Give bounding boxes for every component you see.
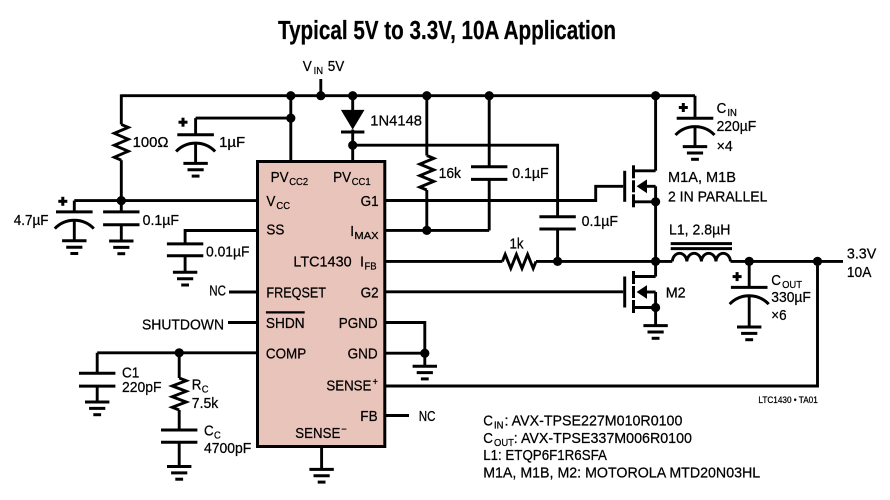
svg-text:CC2: CC2 xyxy=(289,176,308,188)
wire CIN stub xyxy=(694,96,697,119)
node top-rail junction diode xyxy=(348,91,357,100)
wire FB stub xyxy=(385,414,409,417)
capacitor 1uF xyxy=(177,133,214,136)
svg-text:LTC1430 • TA01: LTC1430 • TA01 xyxy=(758,395,817,406)
svg-text:Typical 5V to 3.3V, 10A Applic: Typical 5V to 3.3V, 10A Application xyxy=(278,17,616,45)
inductor L1 coil xyxy=(672,253,730,261)
node M2 source junction xyxy=(651,303,660,312)
capacitor 0.1uF mid xyxy=(539,215,575,218)
svg-text:MAX: MAX xyxy=(354,230,378,242)
svg-text:C: C xyxy=(717,100,727,117)
wire PVCC2 branch xyxy=(289,96,292,162)
op-amp U1 LTC1430 body xyxy=(258,162,385,447)
node COUT junction xyxy=(745,257,754,266)
wire 16k bottom xyxy=(425,190,428,230)
svg-text:V: V xyxy=(303,58,312,75)
node M1 source junction xyxy=(651,197,660,206)
svg-text:FB: FB xyxy=(365,261,377,273)
ground under 1uF xyxy=(194,144,197,164)
svg-text:7.5k: 7.5k xyxy=(192,395,219,412)
node top-rail junction PVCC2 xyxy=(286,91,295,100)
capacitor 1uF plus xyxy=(179,121,188,124)
node 1uF junction on PVCC2 wire xyxy=(286,114,295,123)
svg-text:0.1µF: 0.1µF xyxy=(143,212,179,229)
node top-rail junction M1 drain xyxy=(651,91,660,100)
node GND junction xyxy=(420,349,429,358)
ground under 4.7uF xyxy=(73,221,76,241)
capacitor 0.01uF xyxy=(167,242,203,245)
inductor L1 core bars xyxy=(671,242,732,245)
ground under CC xyxy=(178,442,181,466)
svg-text:: AVX-TPSE337M006R0100: : AVX-TPSE337M006R0100 xyxy=(514,430,692,447)
wire RC bottom xyxy=(178,410,181,430)
svg-text:IN: IN xyxy=(314,65,324,77)
diode 1N4148 xyxy=(341,110,365,130)
node top-rail junction 0.1uF xyxy=(485,91,494,100)
wire 1uF to PVCC2 node xyxy=(196,117,291,120)
transistor M1 xyxy=(654,96,657,171)
svg-text:PV: PV xyxy=(271,169,289,186)
wire C1 stub xyxy=(96,353,99,373)
svg-text:2 IN PARALLEL: 2 IN PARALLEL xyxy=(668,189,767,206)
svg-text:C: C xyxy=(204,423,214,440)
svg-text:FB: FB xyxy=(360,408,377,425)
ground under CIN xyxy=(694,127,697,147)
ground under 0.1uF vcc xyxy=(120,225,123,241)
svg-text:PGND: PGND xyxy=(339,315,378,332)
svg-text:CC1: CC1 xyxy=(352,176,371,188)
wire COUT stub xyxy=(748,261,751,287)
wire IMAX row xyxy=(385,229,489,232)
svg-text:: AVX-TPSE227M010R0100: : AVX-TPSE227M010R0100 xyxy=(505,413,683,430)
node VCC junction xyxy=(117,196,126,205)
node switch node junction xyxy=(651,257,660,266)
ground under GND pin xyxy=(423,353,426,366)
svg-text:×4: ×4 xyxy=(717,138,733,155)
wire VCC row xyxy=(74,199,258,202)
svg-text:+: + xyxy=(373,376,379,388)
svg-text:5V: 5V xyxy=(328,58,345,75)
node output sense junction xyxy=(813,257,822,266)
svg-text:1µF: 1µF xyxy=(219,134,245,151)
resistor 16k xyxy=(420,156,434,191)
wire 0.1uF top stub xyxy=(488,96,491,167)
wire 0.1uF vcc stub xyxy=(120,201,123,212)
wire 1uF stub xyxy=(194,118,197,135)
svg-text:SHDN: SHDN xyxy=(266,315,305,332)
wire PVCC1 branch xyxy=(351,145,354,162)
capacitor 4.7uF xyxy=(56,210,93,213)
capacitor 0.1uF vcc xyxy=(103,210,139,213)
svg-text:10A: 10A xyxy=(847,264,872,281)
wire M1 source to switch node xyxy=(654,202,657,262)
ground under M2 xyxy=(654,308,657,326)
svg-text:1k: 1k xyxy=(510,235,524,252)
svg-text:220pF: 220pF xyxy=(122,379,162,396)
svg-text:C: C xyxy=(771,272,781,289)
capacitor COUT xyxy=(731,286,768,289)
svg-text:CC: CC xyxy=(276,200,290,212)
node 16k IMAX junction xyxy=(422,226,431,235)
svg-text:L1: ETQP6F1R6SFA: L1: ETQP6F1R6SFA xyxy=(483,447,607,464)
wire top rail xyxy=(121,94,695,97)
capacitor CIN xyxy=(677,117,714,120)
wire IFB row xyxy=(385,260,502,263)
wire 0.1uF top bottom xyxy=(488,179,491,230)
ground under C1 xyxy=(96,386,99,402)
svg-text:V: V xyxy=(266,193,275,210)
svg-text:3.3V: 3.3V xyxy=(847,246,876,263)
svg-text:−: − xyxy=(341,423,347,435)
wire SHUTDOWN to SHDN xyxy=(228,321,258,324)
svg-text:SS: SS xyxy=(266,222,284,239)
wire G2 to M2 gate xyxy=(385,290,623,293)
svg-text:IN: IN xyxy=(494,420,504,432)
wire output xyxy=(731,260,844,263)
transistor M2 xyxy=(654,261,657,276)
ground under COUT xyxy=(748,296,751,327)
capacitor 0.1uF top xyxy=(471,165,507,168)
svg-text:NC: NC xyxy=(419,408,436,425)
svg-text:FREQSET: FREQSET xyxy=(266,284,326,301)
wire 16k top xyxy=(425,96,428,156)
resistor 100ohm xyxy=(114,124,128,160)
svg-text:G1: G1 xyxy=(361,193,379,210)
svg-text:C: C xyxy=(202,384,209,396)
svg-text:C: C xyxy=(483,413,493,430)
svg-text:0.1µF: 0.1µF xyxy=(512,165,548,182)
wire SS row xyxy=(185,231,258,244)
svg-text:C: C xyxy=(483,430,493,447)
svg-text:0.1µF: 0.1µF xyxy=(582,213,618,230)
svg-text:NC: NC xyxy=(209,283,226,300)
wire COMP row xyxy=(97,351,258,354)
resistor 1k xyxy=(502,254,536,268)
svg-text:L1, 2.8µH: L1, 2.8µH xyxy=(669,221,730,238)
svg-text:R: R xyxy=(192,377,202,394)
wire 100ohm branch top xyxy=(120,94,123,124)
wire RC top xyxy=(178,353,181,378)
svg-text:SENSE: SENSE xyxy=(295,425,340,442)
node diode bottom junction xyxy=(348,141,357,150)
node COMP junction xyxy=(175,348,184,357)
svg-text:M2: M2 xyxy=(666,285,686,302)
wire 100ohm branch bottom xyxy=(120,160,123,200)
wire GND row xyxy=(385,352,425,355)
svg-text:330µF: 330µF xyxy=(771,289,811,306)
ground under SENSE- xyxy=(320,446,323,469)
wire 0.1uF mid bottom xyxy=(556,229,559,261)
svg-text:1N4148: 1N4148 xyxy=(370,112,422,129)
svg-text:SENSE: SENSE xyxy=(326,378,371,395)
wire diode top xyxy=(351,96,354,111)
svg-text:M1A, M1B, M2: MOTOROLA MTD20N0: M1A, M1B, M2: MOTOROLA MTD20N03HL xyxy=(483,464,760,481)
svg-text:I: I xyxy=(360,254,364,271)
wire SENSE+ xyxy=(385,261,818,386)
wire NC to FREQSET xyxy=(229,291,258,294)
svg-text:COMP: COMP xyxy=(266,346,306,363)
capacitor C1 xyxy=(79,372,115,375)
wire 1k to switch node xyxy=(536,260,672,263)
capacitor CIN plus xyxy=(679,106,688,109)
svg-text:M1A, M1B: M1A, M1B xyxy=(668,169,736,186)
svg-text:0.01µF: 0.01µF xyxy=(206,244,250,261)
svg-text:220µF: 220µF xyxy=(717,118,757,135)
svg-text:GND: GND xyxy=(348,346,378,363)
capacitor CC xyxy=(161,429,197,432)
svg-text:G2: G2 xyxy=(361,284,379,301)
svg-text:×6: ×6 xyxy=(771,307,786,324)
node top-rail junction 16k xyxy=(422,91,431,100)
svg-text:PV: PV xyxy=(333,169,351,186)
svg-text:4.7µF: 4.7µF xyxy=(14,212,49,229)
capacitor 4.7uF plus xyxy=(58,200,67,203)
wire PGND xyxy=(385,323,425,354)
resistor RC xyxy=(172,378,186,410)
wire 4.7uF stub xyxy=(73,201,76,212)
ground under 0.01uF xyxy=(184,256,187,272)
svg-text:4700pF: 4700pF xyxy=(204,440,251,457)
node top-rail junction VIN xyxy=(316,91,325,100)
node mid-cap junction xyxy=(553,257,562,266)
svg-text:SHUTDOWN: SHUTDOWN xyxy=(142,316,224,333)
wire VIN stub xyxy=(319,79,322,96)
svg-text:16k: 16k xyxy=(439,165,462,182)
svg-text:LTC1430: LTC1430 xyxy=(293,254,351,271)
svg-text:100Ω: 100Ω xyxy=(133,134,169,151)
wire diode to mid cap xyxy=(353,145,558,217)
wire G1 to M1 gate xyxy=(385,186,623,200)
capacitor COUT plus xyxy=(733,275,742,278)
